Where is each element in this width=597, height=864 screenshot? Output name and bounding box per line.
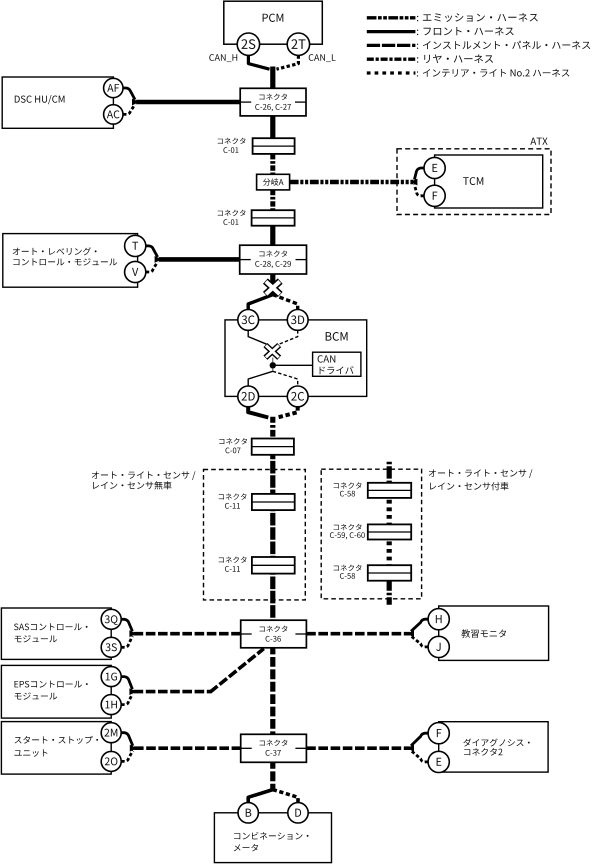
wire X to junction dot (gray) <box>272 358 274 363</box>
label connector C-26/C-27 <box>259 94 287 100</box>
legend: リヤ・ハーネス <box>367 54 493 63</box>
wire bus C-11 to C-11 (instrument panel harness) <box>270 510 275 557</box>
wire start-stop unit to C-37 (instrument panel harness) <box>134 746 241 750</box>
legend: インストルメント・パネル・ハーネス <box>367 41 590 49</box>
wire CAN_H pair (solid) <box>121 677 132 690</box>
label connector C-11 upper <box>219 493 247 499</box>
label CAN_L <box>309 54 336 62</box>
label connector C-11 lower <box>219 556 247 562</box>
wire junction down (gray) <box>272 368 274 371</box>
wire PCM 2S drop (CAN_H solid) <box>248 55 269 69</box>
wire CAN_L pair (dashed) <box>414 184 424 195</box>
wire C-59/C-60 to C-58 (interior light No.2 harness, dotted) <box>387 539 392 565</box>
connector C-59/C-60 <box>368 524 411 539</box>
wire split to BCM 3C (solid) <box>248 295 273 310</box>
label EPS control module <box>14 681 87 688</box>
connector C-28/C-29 box <box>240 245 307 274</box>
terminal meter B <box>238 803 258 823</box>
wire bus BCM to C-07 (rear harness) <box>270 417 275 439</box>
module auto-leveling control module <box>3 234 138 288</box>
wire C-36 to 教習モニタ (instrument panel harness) <box>306 632 410 636</box>
wire CAN_L pair (dashed) <box>121 636 132 647</box>
wire split to meter B (solid) <box>248 790 273 803</box>
terminal DSC AF <box>104 78 123 97</box>
terminal BCM 3D <box>287 310 308 331</box>
terminal BCM 3C <box>238 310 259 331</box>
wire BCM 2C drop (dashed) <box>277 406 297 417</box>
module BCM <box>225 320 367 397</box>
label connector C-01 lower <box>218 210 246 216</box>
wire alt branch below C-58 (rear harness) <box>387 580 392 604</box>
terminal BCM 2D <box>238 386 259 407</box>
wire bus PCM to connector C-26/C-27 (front harness) <box>270 67 275 89</box>
terminal start-stop 2O <box>101 751 121 771</box>
terminal SAS 3Q <box>101 609 121 629</box>
label 分岐A <box>263 178 284 185</box>
label TCM <box>463 177 483 185</box>
junction wedge <box>129 688 134 695</box>
wire bus C-01 to 分岐A (emission harness) <box>270 154 275 175</box>
connector C-07 <box>252 439 294 455</box>
wire bus C-28/C-29 down with splice X <box>270 274 275 296</box>
terminal SAS 3S <box>101 637 121 657</box>
wire CAN_H pair (solid) <box>411 733 428 746</box>
box CAN driver <box>313 352 361 376</box>
junction wedge <box>155 256 160 263</box>
splice X inside BCM <box>265 345 279 358</box>
terminal PCM 2S <box>237 33 259 55</box>
junction wedge <box>412 179 417 186</box>
terminal 教習モニタ H <box>428 609 449 630</box>
label ATX <box>530 138 547 145</box>
label connector C-58 upper <box>334 482 362 488</box>
terminal auto-leveling V <box>125 261 146 282</box>
label start-stop unit <box>14 736 98 744</box>
label DSC HU/CM <box>15 95 65 104</box>
module EPS control module <box>1 665 111 718</box>
connector C-11 (lower) <box>252 557 295 574</box>
connector C-01 (upper) <box>253 138 295 154</box>
connector C-58 (lower) <box>368 565 411 581</box>
wire CAN_H pair (solid) <box>411 619 428 631</box>
connector C-58 (upper) <box>368 483 411 498</box>
junction wedge <box>129 630 134 637</box>
wire C-37 to diagnosis connector 2 (instrument panel harness) <box>306 746 410 750</box>
terminal TCM E <box>424 157 445 178</box>
terminal diagnosis E <box>428 751 449 772</box>
connector C-37 box <box>241 734 307 762</box>
label combination meter <box>234 832 308 840</box>
wire 分岐A to TCM (emission harness) <box>290 180 413 185</box>
wire split to meter D (dashed) <box>273 790 298 803</box>
terminal PCM 2T <box>287 33 309 55</box>
wire DSC to C-26/C-27 (front harness) <box>136 100 241 105</box>
terminal EPS 1G <box>101 667 121 687</box>
wire EPS to bus diagonal (instrument panel harness) <box>134 690 211 694</box>
wire BCM 3D internal (dashed) <box>279 330 298 344</box>
splice X above BCM <box>265 281 280 294</box>
wire PCM 2T drop (CAN_L dashed) <box>277 55 299 69</box>
label connector C-59/C-60 <box>334 524 362 530</box>
region box: auto light sensor / rain sensor WITH (dashed) <box>321 469 421 599</box>
wire bus C-26/C-27 to C-01 (front harness) <box>270 116 275 139</box>
label 教習モニタ <box>461 629 506 637</box>
branch box 分岐A <box>257 174 290 190</box>
wire bus C-11 to C-36 (instrument panel harness) <box>270 573 275 620</box>
region box: auto light sensor / rain sensor WITHOUT (dashed) <box>204 470 306 600</box>
terminal BCM 2C <box>287 386 308 407</box>
wire CAN_H pair (solid) <box>414 168 424 180</box>
wire bus C-36 to C-37 (instrument panel harness) <box>270 648 275 735</box>
terminal DSC AC <box>104 105 123 124</box>
module combination meter <box>214 813 331 863</box>
label diagnosis connector 2 <box>463 738 529 746</box>
wire CAN_H pair (solid) <box>121 619 132 631</box>
wire CAN_L pair (dashed) <box>411 751 428 762</box>
wire CAN_H pair (solid) <box>146 246 158 257</box>
module PCM <box>224 1 322 44</box>
wire auto-leveling to C-28/C-29 (front harness) <box>159 257 240 262</box>
region box: ATX (dashed) <box>397 149 551 215</box>
label connector C-01 upper <box>218 138 246 144</box>
wire BCM 2C internal (dashed) <box>273 371 298 386</box>
label connector C-28/C-29 <box>259 250 287 256</box>
terminal meter D <box>288 803 308 823</box>
legend: フロント・ハーネス <box>367 27 514 36</box>
label connector C-36 <box>260 626 288 632</box>
wire CAN_L pair (dashed) <box>121 694 132 705</box>
label CAN driver <box>318 355 336 362</box>
label connector C-37 <box>260 740 288 746</box>
connector C-01 (lower) <box>252 210 295 226</box>
terminal EPS 1H <box>101 695 121 715</box>
wire BCM 2D internal (solid) <box>248 371 273 386</box>
module DSC HU/CM <box>2 77 113 128</box>
junction wedge <box>132 99 137 106</box>
wire bus C-07 to C-11 (instrument panel harness) <box>270 455 275 495</box>
wire CAN_H pair (solid) <box>123 88 135 100</box>
wire CAN_L pair (dashed) <box>123 104 135 114</box>
module TCM <box>435 155 543 208</box>
label connector C-58 lower <box>334 565 362 571</box>
module start-stop unit <box>1 722 111 775</box>
module 教習モニタ <box>439 606 549 660</box>
wire CAN_L pair (dashed) <box>411 636 428 647</box>
connector C-36 box <box>241 620 307 648</box>
wire alt branch above C-58 (rear harness) <box>387 462 392 483</box>
wire CAN_L pair (dashed) <box>146 262 158 272</box>
wire BCM 3C internal (solid) <box>248 330 266 344</box>
junction dot <box>270 362 276 368</box>
label SAS control module <box>14 623 88 630</box>
junction wedge <box>409 745 414 752</box>
junction wedge <box>409 630 414 637</box>
wire BCM 2D drop (solid) <box>248 406 268 417</box>
wire CAN_H pair (solid) <box>121 733 133 746</box>
wire CAN_L pair (dashed) <box>121 751 133 762</box>
legend: インテリア・ライト No.2 ハーネス <box>367 69 570 77</box>
label auto light sensor with <box>429 469 533 478</box>
terminal TCM F <box>424 185 445 206</box>
connector C-26/C-27 box <box>240 88 306 116</box>
wire bus 分岐A to C-01 (emission harness) <box>270 190 275 211</box>
module SAS control module <box>1 608 111 659</box>
label auto-leveling module <box>13 247 97 255</box>
terminal 教習モニタ J <box>428 636 449 657</box>
wire SAS to C-36 (instrument panel harness) <box>134 632 241 636</box>
connector C-11 (upper) <box>252 494 295 510</box>
legend: エミッション・ハーネス <box>367 13 538 22</box>
label auto light sensor without <box>92 471 196 480</box>
terminal auto-leveling T <box>125 235 146 256</box>
terminal start-stop 2M <box>101 723 121 743</box>
label connector C-07 <box>219 438 247 444</box>
label BCM <box>326 332 348 341</box>
wire junction to CAN driver <box>276 364 313 366</box>
wire split to BCM 3D (dashed) <box>273 295 298 310</box>
label CAN_H <box>209 54 237 62</box>
wire bus C-37 down to combination meter <box>270 762 275 791</box>
module diagnosis connector 2 <box>439 722 548 772</box>
label PCM <box>263 14 284 22</box>
wire C-58 to C-59/C-60 (interior light No.2 harness, dotted) <box>387 498 392 525</box>
wire bus C-01 to C-28/C-29 (front harness) <box>270 226 275 246</box>
junction wedge <box>130 745 135 752</box>
terminal diagnosis F <box>428 723 449 744</box>
